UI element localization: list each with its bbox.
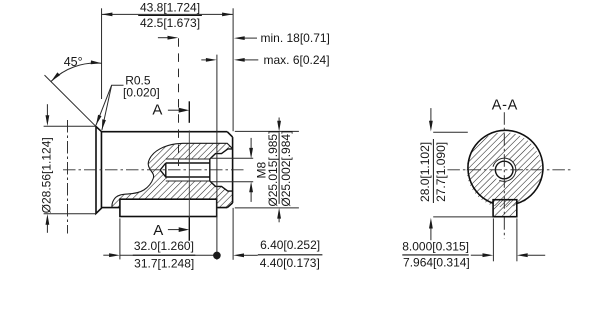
- M8 extension lines: [211, 157, 254, 159]
- dia 28.56 extension bottom: [44, 213, 96, 215]
- key section: [493, 200, 517, 217]
- dia 28.56 dim arrow top: [46, 104, 48, 116]
- thread major line top: [166, 158, 210, 160]
- 45 deg chamfer line: [45, 75, 96, 126]
- centerline horizontal section view: [447, 169, 572, 171]
- section cutting line through part: [188, 130, 190, 217]
- thread minor line top: [166, 162, 210, 164]
- centerline vertical mounting plane: [67, 120, 69, 234]
- 32.0 arrow: [103, 254, 110, 256]
- thread end vertical: [209, 159, 211, 181]
- top dimension extension line right (x=233.1): [232, 8, 234, 131]
- 32.0 dim line: [120, 254, 214, 256]
- 32.0 dim extension left: [119, 218, 121, 259]
- shaft bottom right chamfer: [227, 203, 232, 208]
- dia 25 fraction bar (rotated): [278, 133, 280, 204]
- arrow right of 43.8 dim: [222, 13, 233, 17]
- 45 arc arrow lower: [51, 72, 60, 81]
- broken-out section hatch area (side view): [112, 143, 233, 207]
- svg-text:A: A: [152, 102, 162, 119]
- thread minor line bottom: [166, 176, 210, 178]
- svg-text:6.40[0.252]: 6.40[0.252]: [260, 238, 320, 252]
- A bottom arrow: [168, 229, 180, 231]
- M8 arrow bottom: [250, 192, 252, 202]
- dia 25 extension top: [235, 130, 299, 132]
- M8 arrow top: [250, 138, 252, 149]
- svg-text:27.7[1.090]: 27.7[1.090]: [434, 142, 448, 202]
- 45 arc arrow upper: [91, 60, 102, 64]
- svg-text:Ø28.56[1.124]: Ø28.56[1.124]: [40, 137, 54, 213]
- counterbore profile bottom: [210, 181, 233, 191]
- 8.000 arrow left: [471, 254, 483, 256]
- dim 43.8/42.5 line: [102, 13, 233, 15]
- dia 28.56 extension top: [44, 125, 96, 127]
- A top arrow: [168, 109, 180, 111]
- shaft top edge: [101, 131, 227, 133]
- svg-text:32.0[1.260]: 32.0[1.260]: [134, 239, 194, 253]
- 8.000 dim extension right: [516, 218, 518, 261]
- 8.000 dim extension left: [492, 218, 494, 261]
- dia 25 dim arrow bottom: [278, 218, 280, 223]
- svg-text:8.000[0.315]: 8.000[0.315]: [402, 239, 469, 253]
- freehand break line of broken-out section: [112, 143, 233, 207]
- top dimension extension line left (x=101.5): [101, 8, 103, 99]
- section circle hatched: [467, 132, 542, 207]
- counterbore profile top: [210, 149, 233, 159]
- shaft top right chamfer: [227, 132, 232, 137]
- svg-text:42.5[1.673]: 42.5[1.673]: [140, 16, 200, 30]
- svg-text:A-A: A-A: [492, 97, 518, 113]
- 6.40 fraction bar: [258, 254, 323, 256]
- svg-text:max. 6[0.24]: max. 6[0.24]: [264, 53, 330, 67]
- dia 25 dim arrow top: [278, 118, 280, 123]
- svg-text:Ø25.002[.984]: Ø25.002[.984]: [279, 131, 293, 207]
- svg-text:43.8[1.724]: 43.8[1.724]: [140, 0, 200, 14]
- 32.0 fraction bar: [133, 254, 196, 256]
- min 18 dim left arrow: [158, 37, 169, 39]
- dashed extension thread depth (x=178.5): [178, 38, 180, 166]
- svg-text:A: A: [153, 222, 163, 239]
- 28.0 dim arrow top: [430, 108, 432, 121]
- extension line right lower part: [232, 208, 234, 260]
- 28.0 fraction bar rotated: [432, 139, 434, 203]
- 6.40 dim arrow: [244, 254, 258, 256]
- R0.5 arrowheads: [96, 115, 102, 125]
- 28.0 dim arrow bottom: [430, 228, 432, 241]
- dia 25 extension bottom: [235, 207, 299, 209]
- drill point cone: [160, 163, 166, 177]
- section circle outline: [468, 130, 543, 203]
- thread major arc: [493, 158, 516, 181]
- svg-text:45°: 45°: [64, 55, 83, 69]
- svg-text:7.964[0.314]: 7.964[0.314]: [403, 256, 470, 270]
- 28.0 dim extension top: [433, 131, 468, 133]
- svg-text:4.40[0.173]: 4.40[0.173]: [260, 256, 320, 270]
- hole cavity white cut-out: [160, 149, 232, 191]
- 45 deg arc: [51, 63, 102, 81]
- arrow left of 43.8 dim: [102, 13, 113, 17]
- min 18 dim right arrow: [244, 37, 257, 39]
- thread minor circle: [495, 161, 513, 179]
- svg-text:[0.020]: [0.020]: [123, 86, 160, 100]
- dim termination dot: [213, 252, 221, 260]
- section line top: [188, 101, 190, 123]
- max 6 dim right arrow: [244, 59, 258, 61]
- 28.0 dim extension bottom: [433, 216, 493, 218]
- svg-text:31.7[1.248]: 31.7[1.248]: [134, 256, 194, 270]
- extension line key end (x=216.9): [216, 55, 218, 260]
- key (side view): [120, 199, 217, 216]
- 8.000 arrow right: [528, 254, 546, 256]
- shaft bottom edge: [101, 207, 227, 209]
- shaft end face: [232, 137, 234, 203]
- svg-text:28.0[1.102]: 28.0[1.102]: [418, 142, 432, 202]
- R0.5 leader lines: [96, 85, 124, 125]
- dia 28.56 dim arrow bottom: [46, 224, 48, 233]
- svg-text:min. 18[0.71]: min. 18[0.71]: [261, 31, 330, 45]
- centerline vertical section view: [503, 112, 505, 238]
- fraction bar 43.8/42.5: [138, 14, 202, 16]
- thread major line bottom: [166, 180, 210, 182]
- section line bottom: [188, 217, 190, 241]
- 8.000 fraction bar: [402, 254, 468, 256]
- thread clearance white: [493, 158, 516, 181]
- max 6 dim left arrow: [201, 59, 206, 61]
- flange outline: [96, 127, 101, 214]
- centerline horizontal side view: [63, 169, 247, 171]
- svg-text:Ø25.015[.985]: Ø25.015[.985]: [266, 131, 280, 207]
